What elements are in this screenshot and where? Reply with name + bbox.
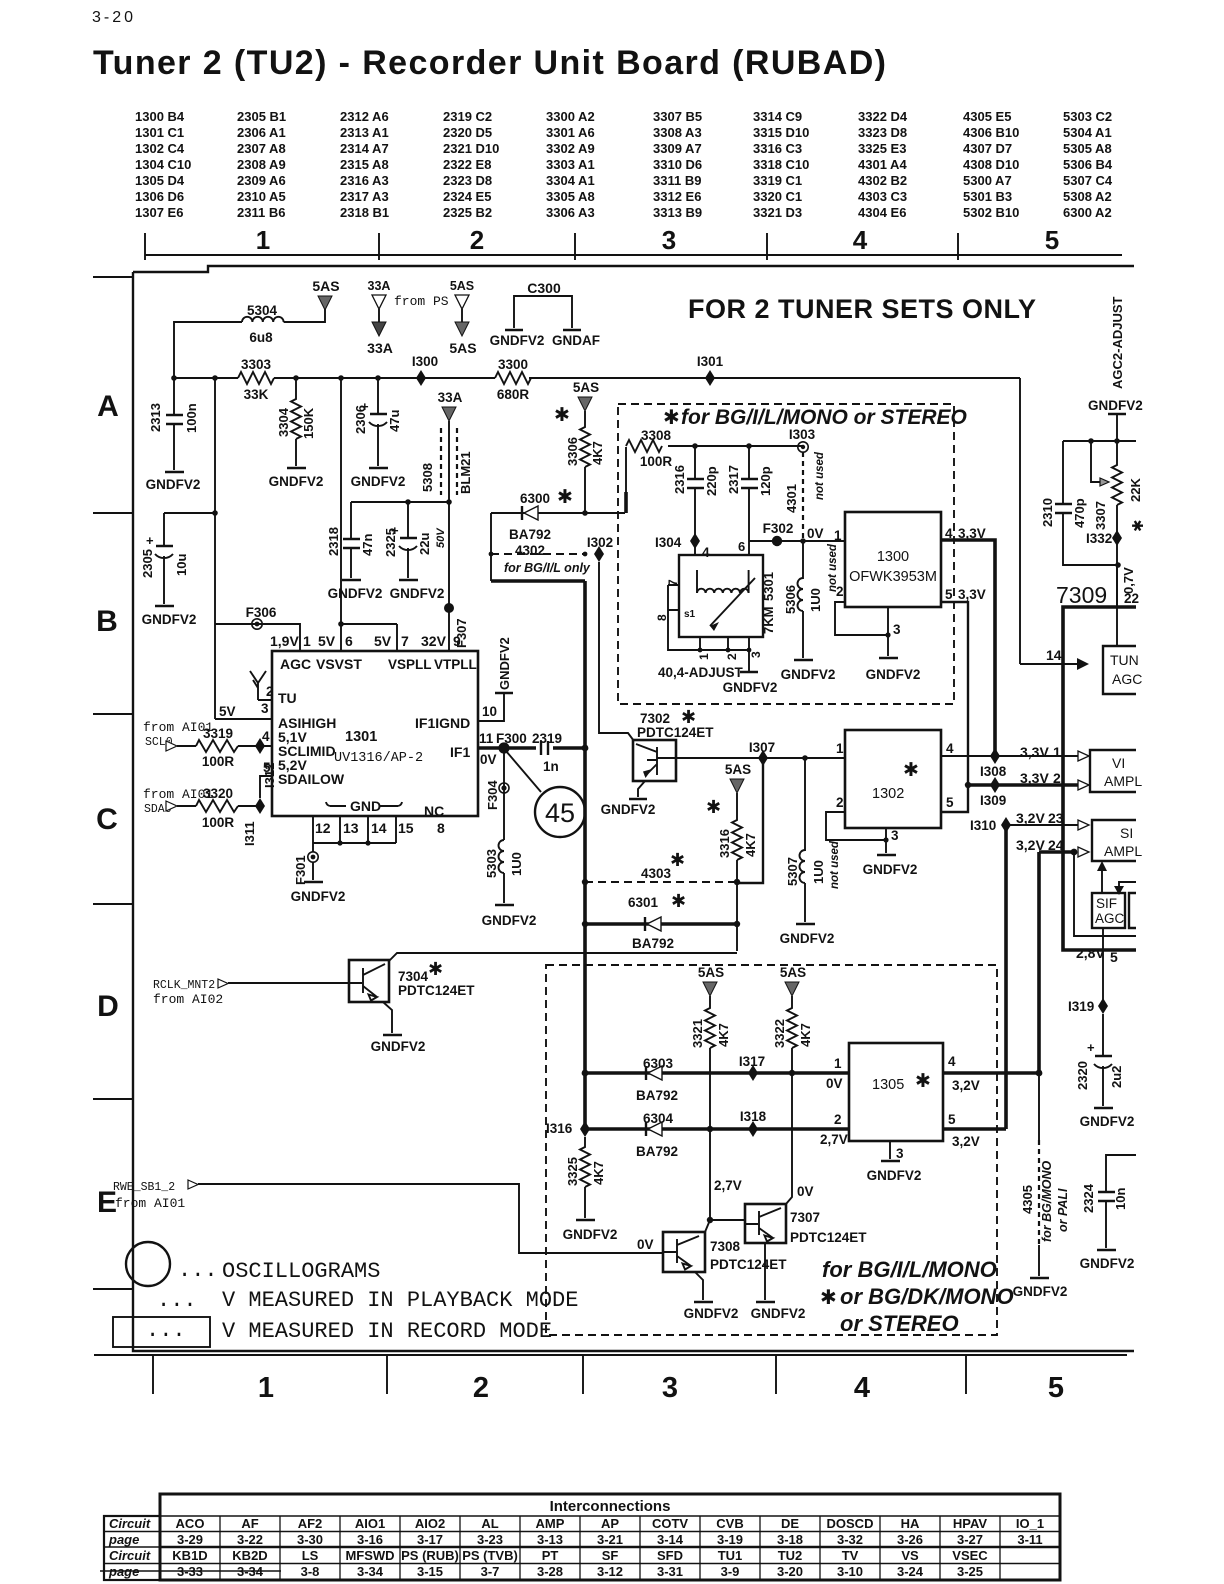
svg-text:TU2: TU2 <box>778 1548 803 1563</box>
svg-text:1301: 1301 <box>345 729 377 745</box>
wire I307 to 3316 junction <box>737 758 763 883</box>
node I332 <box>1086 530 1139 606</box>
svg-text:1: 1 <box>258 1372 274 1404</box>
svg-text:3-12: 3-12 <box>597 1564 623 1579</box>
node I317 <box>739 1054 765 1081</box>
node I301 <box>697 354 724 386</box>
svg-text:for BG/I/L/MONO: for BG/I/L/MONO <box>822 1257 997 1282</box>
svg-text:OSCILLOGRAMS: OSCILLOGRAMS <box>222 1259 380 1284</box>
capacitor 2318 47n <box>326 502 375 578</box>
svg-text:2320: 2320 <box>1075 1061 1090 1090</box>
capacitor 2313 100n <box>148 378 199 470</box>
svg-text:9: 9 <box>453 633 461 649</box>
legend playback <box>157 1288 578 1313</box>
dashed box lower (BG/I/L/MONO or BG/DK/MONO or STEREO) <box>546 965 997 1335</box>
antenna TU pin2 <box>250 671 274 700</box>
svg-text:PDTC124ET: PDTC124ET <box>398 983 475 998</box>
IC 1301 UV1316/AP-2 <box>272 651 478 819</box>
svg-text:KB1D: KB1D <box>172 1548 207 1563</box>
wire IF main vertical <box>582 581 589 1129</box>
svg-text:3323 D8: 3323 D8 <box>858 125 907 140</box>
input SCL0 from AI01 <box>143 720 213 751</box>
svg-text:2317: 2317 <box>726 465 741 494</box>
svg-text:SIF: SIF <box>1096 896 1117 911</box>
svg-text:from AI02: from AI02 <box>153 992 223 1007</box>
node I302 <box>587 535 613 562</box>
table row page 2 <box>177 1564 983 1579</box>
svg-text:3-13: 3-13 <box>537 1532 563 1547</box>
svg-text:4: 4 <box>853 225 868 255</box>
svg-text:PS (TVB): PS (TVB) <box>462 1548 518 1563</box>
svg-text:2321 D10: 2321 D10 <box>443 141 499 156</box>
svg-text:33A: 33A <box>438 390 463 405</box>
svg-text:5: 5 <box>945 587 953 602</box>
svg-text:3301 A6: 3301 A6 <box>546 125 595 140</box>
wire RWE to 7308 <box>198 1184 663 1253</box>
svg-text:22K: 22K <box>1128 478 1143 502</box>
svg-text:3-25: 3-25 <box>957 1564 983 1579</box>
svg-text:3-7: 3-7 <box>481 1564 500 1579</box>
svg-text:SDAILOW: SDAILOW <box>278 771 345 787</box>
svg-text:8: 8 <box>655 614 669 621</box>
resistor 3306 4K7 <box>554 380 605 513</box>
testpoint F304 <box>485 748 509 840</box>
diode 6301 BA792 <box>582 891 740 951</box>
link 4302 region (for BG/I/L only) <box>489 513 591 581</box>
svg-text:3-14: 3-14 <box>657 1532 684 1547</box>
svg-text:✱: ✱ <box>903 760 919 781</box>
svg-text:0V: 0V <box>480 752 497 767</box>
svg-text:3308 A3: 3308 A3 <box>653 125 702 140</box>
svg-text:...: ... <box>146 1318 186 1343</box>
svg-text:GNDFV2: GNDFV2 <box>142 612 197 627</box>
svg-text:15: 15 <box>398 820 414 836</box>
svg-text:5305 A8: 5305 A8 <box>1063 141 1112 156</box>
svg-text:from AI01: from AI01 <box>115 1196 185 1211</box>
ground 5307 <box>780 924 835 946</box>
svg-text:4: 4 <box>854 1372 870 1404</box>
svg-text:2: 2 <box>725 653 739 660</box>
svg-text:24: 24 <box>1048 837 1064 853</box>
capacitor 2305 10u <box>140 513 215 604</box>
svg-text:✱: ✱ <box>663 407 680 429</box>
capacitor 2320 2u2 <box>1075 1014 1124 1106</box>
transistor 7304 PDTC124ET <box>349 953 737 1033</box>
svg-text:Circuit: Circuit <box>109 1516 151 1531</box>
resistor 3303 33K <box>238 357 274 402</box>
legend record <box>113 1317 552 1347</box>
svg-text:7308: 7308 <box>710 1239 741 1254</box>
svg-text:3-18: 3-18 <box>777 1532 803 1547</box>
svg-text:4305: 4305 <box>1020 1185 1035 1214</box>
svg-text:GNDFV2: GNDFV2 <box>863 862 918 877</box>
svg-text:3-20: 3-20 <box>777 1564 803 1579</box>
svg-text:3321: 3321 <box>690 1019 705 1048</box>
svg-text:2320 D5: 2320 D5 <box>443 125 492 140</box>
svg-text:1307 E6: 1307 E6 <box>135 205 183 220</box>
svg-text:3304 A1: 3304 A1 <box>546 173 595 188</box>
svg-text:1: 1 <box>836 741 844 756</box>
block SIF AMPL (cut) <box>1092 820 1142 861</box>
ground 2313 <box>146 472 201 492</box>
ground 5306 <box>781 660 836 682</box>
svg-text:Tuner 2 (TU2) - Recorder Unit: Tuner 2 (TU2) - Recorder Unit Board (RUB… <box>93 44 887 82</box>
svg-text:GNDFV2: GNDFV2 <box>497 637 512 690</box>
table row circuit 1 <box>176 1516 1045 1531</box>
ground 7302 <box>601 799 656 817</box>
svg-text:4303: 4303 <box>641 866 672 881</box>
wire pins 6-7 drop <box>341 624 397 651</box>
wire 1302 pin5 <box>941 785 968 812</box>
svg-text:5V: 5V <box>219 704 236 719</box>
block VIDEO AMPL (cut) <box>1090 750 1142 792</box>
svg-text:AGC: AGC <box>1112 671 1142 687</box>
top column scale <box>145 225 1122 260</box>
svg-text:for BG/I/L only: for BG/I/L only <box>504 561 591 575</box>
node I307 <box>749 740 775 766</box>
wire main bus row A <box>171 375 1020 381</box>
ground pin10 IF1IGND <box>478 637 513 721</box>
banner: FOR 2 TUNER SETS ONLY <box>688 294 1037 324</box>
svg-text:7309: 7309 <box>1056 582 1107 608</box>
svg-text:2,7V: 2,7V <box>714 1178 742 1193</box>
ground 7307 <box>751 1302 806 1321</box>
svg-text:4K7: 4K7 <box>716 1023 731 1047</box>
svg-text:3-22: 3-22 <box>237 1532 263 1547</box>
svg-text:33A: 33A <box>368 279 391 293</box>
svg-text:1: 1 <box>697 653 711 660</box>
svg-text:7: 7 <box>666 579 680 586</box>
svg-text:RCLK_MNT2: RCLK_MNT2 <box>153 979 215 992</box>
input RCLK_MNT2 from AI02 <box>153 979 349 1007</box>
capacitor 2316 220p <box>672 446 719 541</box>
legend oscillograms <box>126 1242 380 1286</box>
svg-text:VSPLL: VSPLL <box>388 657 432 672</box>
inductor 5306 1U0 not used <box>783 541 839 658</box>
testpoint F306 <box>246 605 277 629</box>
svg-text:4302: 4302 <box>515 543 545 558</box>
svg-text:Interconnections: Interconnections <box>550 1498 671 1515</box>
svg-text:PT: PT <box>542 1548 559 1563</box>
resistor 3308 100R <box>626 428 803 513</box>
svg-text:32V: 32V <box>421 633 447 649</box>
svg-text:3322 D4: 3322 D4 <box>858 109 908 124</box>
svg-text:680R: 680R <box>497 387 530 402</box>
svg-text:4304 E6: 4304 E6 <box>858 205 906 220</box>
testpoint I303 <box>789 427 816 452</box>
svg-text:1: 1 <box>256 225 270 255</box>
svg-text:3: 3 <box>662 225 676 255</box>
svg-text:I316: I316 <box>546 1121 573 1136</box>
ground 5301 <box>723 672 778 695</box>
testpoint F302 <box>763 521 794 546</box>
svg-text:23: 23 <box>1048 810 1064 826</box>
svg-text:3-21: 3-21 <box>597 1532 623 1547</box>
oscillogram 45 <box>506 751 585 837</box>
svg-text:RWE_SB1_2: RWE_SB1_2 <box>113 1181 175 1194</box>
node I310 <box>970 817 1011 1129</box>
svg-text:I308: I308 <box>980 764 1007 779</box>
capacitor 2324 10n <box>1081 1155 1136 1248</box>
wire 1305 pin4 3,2V <box>943 1070 1042 1093</box>
node I304 <box>655 533 710 560</box>
svg-text:4K7: 4K7 <box>591 1161 606 1185</box>
svg-text:AMPL: AMPL <box>1104 843 1142 859</box>
svg-text:✱: ✱ <box>1130 519 1147 532</box>
diode 6303 BA792 <box>636 1056 678 1103</box>
svg-text:AL: AL <box>481 1516 498 1531</box>
capacitor 2306 47u <box>353 378 402 466</box>
wire 1300 pin4 3,3V <box>941 526 995 756</box>
svg-text:✱: ✱ <box>681 707 696 727</box>
node I300 <box>412 354 438 386</box>
svg-text:GNDFV2: GNDFV2 <box>371 1039 426 1054</box>
wire 1305 pin5 3,2V <box>943 1129 1006 1149</box>
svg-text:6: 6 <box>738 539 745 554</box>
potentiometer 3307 22K <box>1091 441 1147 607</box>
svg-text:2312 A6: 2312 A6 <box>340 109 389 124</box>
svg-text:3307 B5: 3307 B5 <box>653 109 702 124</box>
svg-text:0V: 0V <box>637 1237 654 1252</box>
svg-text:3: 3 <box>261 701 269 716</box>
svg-text:✱: ✱ <box>820 1287 837 1309</box>
transistor 7307 PDTC124ET <box>745 1204 867 1300</box>
svg-text:45: 45 <box>545 798 575 828</box>
svg-text:✱: ✱ <box>671 891 686 911</box>
node I319 <box>1068 998 1108 1014</box>
node I312 pin4 <box>255 729 277 788</box>
svg-text:OFWK3953M: OFWK3953M <box>849 569 937 585</box>
svg-text:7KM: 7KM <box>761 607 776 634</box>
svg-text:3314 C9: 3314 C9 <box>753 109 802 124</box>
wire F306/AGC line <box>215 624 300 651</box>
ground 7304 <box>371 1035 426 1054</box>
svg-text:GNDFV2: GNDFV2 <box>490 333 545 348</box>
svg-text:5: 5 <box>1045 225 1059 255</box>
svg-text:6300 A2: 6300 A2 <box>1063 205 1112 220</box>
svg-text:✱: ✱ <box>670 850 685 870</box>
svg-text:4305 E5: 4305 E5 <box>963 109 1011 124</box>
svg-text:UV1316/AP-2: UV1316/AP-2 <box>334 751 423 766</box>
svg-text:3316 C3: 3316 C3 <box>753 141 802 156</box>
svg-text:10u: 10u <box>174 554 189 576</box>
svg-text:2319 C2: 2319 C2 <box>443 109 492 124</box>
svg-text:1: 1 <box>834 1056 842 1071</box>
block TUN AGC <box>1103 646 1142 694</box>
svg-text:3320: 3320 <box>203 786 233 801</box>
svg-text:1: 1 <box>834 528 842 543</box>
svg-text:FOR 2 TUNER SETS ONLY: FOR 2 TUNER SETS ONLY <box>688 294 1037 324</box>
svg-text:3-20: 3-20 <box>92 9 136 26</box>
svg-text:I300: I300 <box>412 354 438 369</box>
note text lower box <box>822 1257 1014 1336</box>
svg-text:100R: 100R <box>202 815 235 830</box>
svg-text:470p: 470p <box>1072 498 1087 528</box>
svg-text:5AS: 5AS <box>450 279 474 293</box>
svg-text:2316: 2316 <box>672 465 687 494</box>
svg-text:2,7V: 2,7V <box>820 1132 848 1147</box>
svg-text:GNDFV2: GNDFV2 <box>684 1306 739 1321</box>
inductor 5303 1U0 <box>484 840 524 903</box>
svg-text:120p: 120p <box>758 466 773 496</box>
svg-text:GNDFV2: GNDFV2 <box>1080 1256 1135 1271</box>
svg-text:VS: VS <box>901 1548 919 1563</box>
svg-text:I319: I319 <box>1068 999 1094 1014</box>
ground 2325 <box>390 580 445 601</box>
svg-text:5308: 5308 <box>420 463 435 492</box>
svg-text:3325 E3: 3325 E3 <box>858 141 906 156</box>
resistor 3319 100R <box>196 726 272 769</box>
svg-text:1304 C10: 1304 C10 <box>135 157 191 172</box>
svg-text:4307 D7: 4307 D7 <box>963 141 1012 156</box>
svg-text:not used: not used <box>814 451 826 500</box>
testpoint F301 <box>293 843 318 885</box>
svg-text:GNDFV2: GNDFV2 <box>146 477 201 492</box>
title upper dashed box <box>663 406 967 429</box>
svg-text:1,9V: 1,9V <box>270 633 299 649</box>
svg-text:1U0: 1U0 <box>811 860 826 884</box>
svg-text:3306: 3306 <box>565 437 580 466</box>
ground 2320 <box>1080 1108 1135 1129</box>
wire 2,7V line (pin2 1305) <box>585 1112 849 1147</box>
svg-text:5304: 5304 <box>247 303 278 318</box>
svg-text:2306: 2306 <box>353 405 368 434</box>
svg-text:2305 B1: 2305 B1 <box>237 109 286 124</box>
svg-text:8: 8 <box>437 820 445 836</box>
svg-text:50V: 50V <box>435 527 447 548</box>
svg-text:3313 B9: 3313 B9 <box>653 205 702 220</box>
wire 3,2V 23 line <box>1006 810 1089 830</box>
inductor 5304 6u8 <box>174 303 325 378</box>
svg-text:12: 12 <box>315 820 331 836</box>
svg-text:3,3V: 3,3V <box>1020 744 1049 760</box>
svg-text:GNDFV2: GNDFV2 <box>866 667 921 682</box>
svg-text:22: 22 <box>1124 591 1139 606</box>
wire pin22 into 7309 <box>1116 565 1118 646</box>
connector pair 33A from PS <box>367 279 449 356</box>
svg-text:3-27: 3-27 <box>957 1532 983 1547</box>
svg-text:COTV: COTV <box>652 1516 688 1531</box>
svg-text:40,4-ADJUST: 40,4-ADJUST <box>658 665 744 680</box>
svg-text:3-32: 3-32 <box>837 1532 863 1547</box>
svg-text:3-19: 3-19 <box>717 1532 743 1547</box>
svg-text:✱: ✱ <box>557 487 573 508</box>
resistor 3316 4K7 <box>706 762 758 885</box>
svg-text:3305 A8: 3305 A8 <box>546 189 595 204</box>
IC 1300 OFWK3953M <box>835 512 941 656</box>
svg-text:5304 A1: 5304 A1 <box>1063 125 1112 140</box>
link 4303 (dashed) <box>582 850 737 885</box>
svg-text:5301 B3: 5301 B3 <box>963 189 1012 204</box>
svg-text:3311 B9: 3311 B9 <box>653 173 701 188</box>
table row page 1 <box>177 1532 1043 1547</box>
svg-text:VI: VI <box>1112 755 1125 771</box>
svg-text:GNDFV2: GNDFV2 <box>723 680 778 695</box>
svg-text:3322: 3322 <box>772 1019 787 1048</box>
svg-text:0V: 0V <box>826 1076 843 1091</box>
svg-text:6: 6 <box>345 633 353 649</box>
svg-text:13: 13 <box>343 820 359 836</box>
svg-text:3-28: 3-28 <box>537 1564 563 1579</box>
svg-text:I309: I309 <box>980 793 1006 808</box>
svg-text:5308 A2: 5308 A2 <box>1063 189 1112 204</box>
svg-text:3300: 3300 <box>498 357 528 372</box>
svg-text:GNDFV2: GNDFV2 <box>1013 1284 1068 1299</box>
svg-text:2313 A1: 2313 A1 <box>340 125 389 140</box>
transistor 7308 PDTC124ET <box>637 1232 787 1300</box>
svg-text:0,7V: 0,7V <box>1121 567 1136 594</box>
svg-text:2316 A3: 2316 A3 <box>340 173 389 188</box>
svg-text:AF: AF <box>241 1516 258 1531</box>
svg-text:1305: 1305 <box>872 1077 904 1093</box>
block SIF AGC internals <box>1074 852 1136 936</box>
svg-text:B: B <box>96 605 118 638</box>
svg-text:3-31: 3-31 <box>657 1564 683 1579</box>
svg-text:I311: I311 <box>242 821 257 846</box>
svg-text:1306 D6: 1306 D6 <box>135 189 184 204</box>
svg-text:F306: F306 <box>246 605 277 620</box>
svg-text:4: 4 <box>262 729 270 744</box>
svg-text:ACO: ACO <box>176 1516 205 1531</box>
svg-text:AMP: AMP <box>536 1516 565 1531</box>
svg-text:3307: 3307 <box>1093 501 1108 530</box>
svg-text:3,2V: 3,2V <box>1016 810 1045 826</box>
svg-text:3: 3 <box>896 1146 904 1161</box>
wire IF1 pin11 F300 <box>478 731 586 767</box>
svg-text:DOSCD: DOSCD <box>827 1516 874 1531</box>
svg-text:F302: F302 <box>763 521 794 536</box>
svg-text:3325: 3325 <box>565 1157 580 1186</box>
svg-text:3: 3 <box>893 622 901 637</box>
capacitor 2319 1n <box>532 731 562 774</box>
svg-text:100n: 100n <box>184 403 199 433</box>
input SDA0 from AI01 <box>143 787 213 816</box>
wire 2,8V pin5 <box>1076 928 1118 1000</box>
svg-text:I304: I304 <box>655 535 682 550</box>
svg-text:6301: 6301 <box>628 895 659 910</box>
wire I301 to pin14 column <box>1019 378 1021 664</box>
svg-text:5301: 5301 <box>761 572 776 601</box>
svg-text:not used: not used <box>829 840 841 889</box>
svg-text:I332: I332 <box>1086 531 1112 546</box>
wire 5V feed to pins 6/7 <box>338 378 397 627</box>
svg-text:3310 D6: 3310 D6 <box>653 157 702 172</box>
ground F301 <box>291 882 346 904</box>
svg-text:I318: I318 <box>740 1109 767 1124</box>
svg-text:4K7: 4K7 <box>798 1023 813 1047</box>
svg-text:100R: 100R <box>202 754 235 769</box>
asterisk note <box>820 1287 837 1309</box>
svg-text:10: 10 <box>482 704 497 719</box>
node I316 <box>546 1121 590 1137</box>
svg-text:VTPLL: VTPLL <box>434 657 477 672</box>
svg-text:7302: 7302 <box>640 711 670 726</box>
wire 3,3V 1 line <box>941 744 1089 761</box>
svg-text:GNDFV2: GNDFV2 <box>390 586 445 601</box>
svg-text:3-11: 3-11 <box>1017 1532 1042 1547</box>
ground 1305 <box>867 1161 922 1183</box>
resistor 3320 100R <box>196 786 260 830</box>
svg-text:2: 2 <box>470 225 484 255</box>
svg-text:SF: SF <box>602 1548 619 1563</box>
svg-text:5306 B4: 5306 B4 <box>1063 157 1113 172</box>
svg-text:3303 A1: 3303 A1 <box>546 157 595 172</box>
wire 0V line (pin1 1305) <box>582 1056 849 1091</box>
svg-text:PS (RUB): PS (RUB) <box>401 1548 459 1563</box>
svg-text:D: D <box>97 990 119 1023</box>
svg-text:5V: 5V <box>374 633 392 649</box>
svg-text:3316: 3316 <box>717 829 732 858</box>
